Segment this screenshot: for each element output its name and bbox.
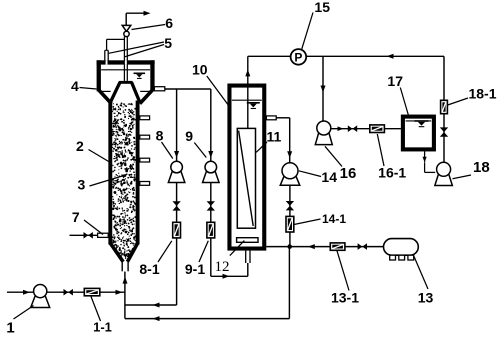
svg-text:18: 18 <box>473 159 490 176</box>
svg-text:18-1: 18-1 <box>468 86 496 102</box>
svg-text:P: P <box>294 51 302 65</box>
svg-text:8-1: 8-1 <box>139 261 159 277</box>
svg-text:4: 4 <box>71 78 79 94</box>
svg-text:1-1: 1-1 <box>93 320 112 335</box>
svg-text:12: 12 <box>215 259 230 275</box>
svg-text:14: 14 <box>321 169 337 185</box>
svg-text:14-1: 14-1 <box>322 212 346 226</box>
svg-text:9: 9 <box>185 128 193 144</box>
svg-text:11: 11 <box>266 129 281 145</box>
svg-text:15: 15 <box>314 0 330 15</box>
svg-text:5: 5 <box>164 35 172 51</box>
svg-text:13: 13 <box>418 290 434 306</box>
svg-text:1: 1 <box>6 320 14 336</box>
svg-text:2: 2 <box>76 138 84 154</box>
svg-text:16-1: 16-1 <box>378 165 406 181</box>
svg-text:13-1: 13-1 <box>331 290 359 306</box>
svg-text:16: 16 <box>340 165 357 182</box>
svg-text:17: 17 <box>387 73 403 89</box>
svg-text:7: 7 <box>72 209 80 225</box>
svg-text:9-1: 9-1 <box>185 261 205 277</box>
svg-text:3: 3 <box>78 177 86 193</box>
svg-text:10: 10 <box>192 62 208 78</box>
svg-text:8: 8 <box>156 128 164 144</box>
svg-text:6: 6 <box>165 15 173 31</box>
